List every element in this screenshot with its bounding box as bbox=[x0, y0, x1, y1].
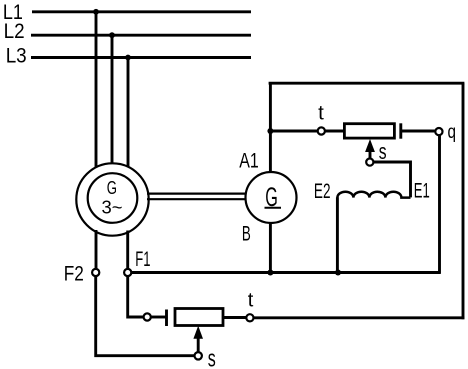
wire F1 down lead to rheostat R2 bbox=[128, 276, 144, 317]
terminal left of rheostat R2 bbox=[144, 313, 151, 320]
svg-text:L2: L2 bbox=[4, 19, 25, 43]
wire t2 to right rail bbox=[254, 316, 465, 319]
wire q down to F1 wire bbox=[438, 135, 441, 274]
wiper stem R1 bbox=[369, 150, 372, 159]
svg-text:G: G bbox=[107, 178, 117, 199]
terminal q bbox=[435, 128, 442, 135]
wire F1 horizontal to q drop bbox=[131, 271, 440, 274]
generator G1 inner circle bbox=[88, 173, 138, 223]
terminal s1 bbox=[366, 159, 373, 166]
inductor field winding E2-E1 bbox=[337, 192, 410, 198]
resistor R2 body (rheostat) bbox=[175, 309, 223, 326]
wire right rail bbox=[462, 83, 465, 319]
shaft coupling lower line bbox=[147, 198, 246, 200]
svg-text:E1: E1 bbox=[414, 179, 430, 203]
svg-text:3~: 3~ bbox=[102, 198, 123, 219]
wire F2 down lead bbox=[96, 276, 195, 356]
junction dot L2 bbox=[109, 32, 115, 38]
exciter generator G2 circle bbox=[246, 172, 297, 223]
junction dot L3 bbox=[125, 55, 131, 61]
svg-text:s: s bbox=[208, 346, 216, 369]
svg-text:s: s bbox=[379, 139, 387, 164]
junction dot L1 bbox=[93, 9, 99, 15]
svg-text:L3: L3 bbox=[6, 43, 27, 67]
svg-text:q: q bbox=[448, 121, 457, 143]
junction dot exciter bottom on F1 wire bbox=[267, 270, 273, 276]
wire s1 to field coil right end bbox=[373, 162, 410, 197]
svg-text:F2: F2 bbox=[64, 261, 84, 285]
wire field coil left lead down bbox=[336, 197, 339, 272]
generator G1 three-phase outer circle bbox=[76, 163, 148, 235]
terminal F2 bbox=[92, 269, 99, 276]
shaft coupling upper line bbox=[147, 193, 246, 195]
wire branch to terminal t1 bbox=[270, 130, 317, 133]
terminal t1 bbox=[318, 127, 325, 134]
wire top rail bbox=[269, 82, 465, 85]
wire terminal to end stop R2 bbox=[151, 316, 166, 319]
svg-text:A1: A1 bbox=[239, 148, 259, 172]
wire L1 drop to generator bbox=[95, 12, 98, 168]
wire generator to F2 terminal bbox=[95, 230, 98, 269]
end stop bar R1 bbox=[399, 123, 402, 138]
terminal s2 bbox=[195, 352, 202, 359]
wire L3 line bbox=[31, 56, 251, 59]
wire L2 drop to generator bbox=[111, 35, 114, 164]
terminal t2 bbox=[246, 314, 253, 321]
wire exciter bottom lead bbox=[269, 223, 272, 273]
svg-text:B: B bbox=[242, 221, 251, 245]
svg-text:F1: F1 bbox=[135, 247, 150, 271]
exciter G2 label underline bbox=[265, 207, 282, 209]
wire L2 line bbox=[31, 34, 251, 37]
wiper arrow of rheostat R2 bbox=[193, 326, 203, 339]
wire R2 to terminal t2 bbox=[223, 316, 246, 319]
terminal F1 bbox=[124, 269, 131, 276]
wire t1 to rheostat R1 bbox=[325, 130, 345, 133]
svg-text:t: t bbox=[248, 290, 254, 312]
svg-text:t: t bbox=[318, 102, 324, 125]
wire R1 end stop to terminal q bbox=[401, 130, 436, 133]
wiper stem R2 bbox=[197, 337, 200, 352]
end stop bar R2 bbox=[165, 310, 168, 327]
junction dot branch to rheostat R1 bbox=[267, 128, 273, 134]
wiper arrow of rheostat R1 bbox=[365, 139, 375, 152]
resistor R1 body (rheostat) bbox=[344, 124, 394, 138]
wire generator to F1 terminal bbox=[126, 231, 129, 270]
junction dot field coil on F1 wire bbox=[335, 270, 341, 276]
wire L3 drop to generator bbox=[127, 58, 130, 168]
svg-text:E2: E2 bbox=[314, 179, 331, 203]
wire exciter top lead bbox=[269, 83, 272, 172]
wire L1 line bbox=[32, 10, 251, 13]
